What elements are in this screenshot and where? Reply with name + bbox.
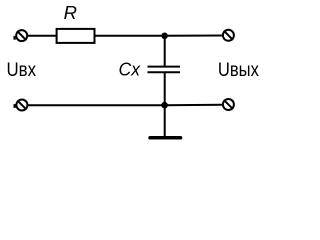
- stub left of terminal X3: [14, 104, 16, 108]
- wire X3 to node B: [28, 104, 165, 106]
- wire capacitor to node B: [164, 72, 166, 105]
- svg-text:Uвх: Uвх: [7, 60, 37, 81]
- capacitor Cx bottom plate: [148, 71, 181, 73]
- wire node B to terminal X4: [165, 104, 223, 107]
- svg-text:Cx: Cx: [119, 59, 141, 80]
- resistor R: [57, 29, 95, 43]
- node B (bottom junction): [161, 102, 168, 109]
- wire node B down to ground: [164, 105, 166, 138]
- svg-text:Uвых: Uвых: [218, 60, 259, 81]
- wire node A down to capacitor Cx: [164, 36, 166, 67]
- terminal X2 (output top, circle with slash): [223, 30, 234, 41]
- node A (top junction): [161, 33, 168, 40]
- stub left of terminal X1: [14, 36, 16, 40]
- capacitor Cx top plate: [148, 66, 181, 68]
- terminal X4 (output bottom, circle with slash): [223, 99, 234, 110]
- terminal X3 (input bottom, circle with slash): [16, 100, 27, 111]
- terminal X1 (input top, circle with slash): [16, 30, 27, 41]
- wire R to node A: [95, 35, 165, 37]
- svg-text:R: R: [64, 2, 77, 23]
- ground: [150, 136, 181, 140]
- wire X1 to R: [27, 35, 56, 37]
- wire node A to terminal X2: [165, 35, 223, 37]
